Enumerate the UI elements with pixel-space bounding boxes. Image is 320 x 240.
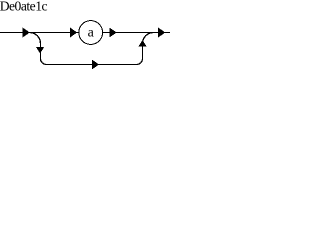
wire left vertical bbox=[40, 43, 42, 59]
svg-text:De0ate1c: De0ate1c bbox=[0, 0, 47, 14]
wire right vertical bbox=[142, 43, 144, 59]
wire bottom-right curve bbox=[137, 59, 143, 65]
arrow right 1 bbox=[23, 28, 30, 38]
wire main line bbox=[0, 32, 170, 34]
wire bottom line bbox=[47, 64, 137, 66]
arrow right bottom bbox=[92, 60, 99, 70]
wire bottom-left curve bbox=[41, 59, 47, 65]
svg-text:a: a bbox=[88, 26, 95, 41]
arrow down bbox=[36, 47, 44, 54]
arrow up bbox=[138, 40, 147, 47]
terminal circle "a" bbox=[79, 21, 103, 45]
arrow right 3 bbox=[110, 28, 117, 38]
arrow right 2 bbox=[70, 28, 77, 38]
arrow right 4 bbox=[158, 28, 165, 38]
wire branch-down curve left bbox=[30, 33, 41, 44]
wire merge-up curve right bbox=[143, 33, 154, 44]
